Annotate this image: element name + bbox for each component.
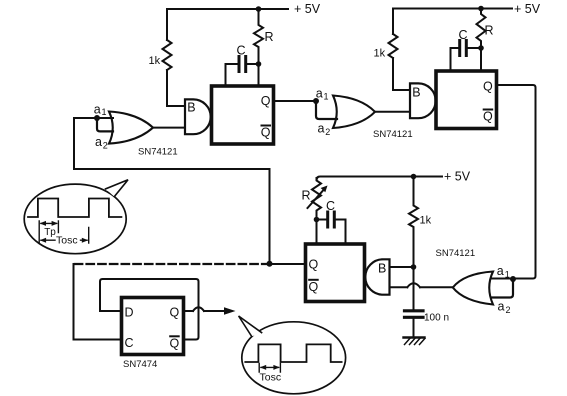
svg-text:B: B [187, 101, 195, 115]
arrow head on Q output [224, 307, 236, 315]
Tosc dimension arrow [40, 238, 88, 243]
capacitor C (first monostable) [226, 57, 259, 72]
Tosc dimension arrow balloon 2 [260, 365, 280, 370]
monostable U1 SN74121 box [212, 86, 274, 144]
dashed clock wire U3 Q to SN7474 [74, 263, 270, 265]
node a1 junction U3 trigger [510, 276, 516, 282]
capacitor C (second monostable) [451, 41, 482, 56]
Q-bar pin label U1 [261, 126, 271, 140]
svg-text:2: 2 [506, 305, 511, 315]
R value label [265, 30, 274, 44]
ground [404, 338, 426, 345]
capacitor C (third monostable) [317, 212, 346, 227]
gate B U3 (mirrored) [365, 259, 389, 294]
B pin label U3 [378, 262, 386, 276]
a2 label U2 [318, 122, 331, 138]
D pin label U4 [125, 306, 134, 320]
svg-text:Q: Q [309, 280, 319, 294]
SN74121 label U2 [373, 129, 413, 140]
100n value label [424, 313, 449, 324]
capacitor 100n [405, 267, 424, 338]
C value label 2 [459, 28, 468, 42]
svg-text:SN74121: SN74121 [138, 147, 178, 158]
+5V label (top-left) [294, 2, 321, 16]
svg-text:C: C [237, 44, 246, 58]
Q pin label U1 [261, 94, 271, 108]
+5V label (top-right) [514, 2, 541, 16]
gate B U1 [185, 99, 211, 134]
svg-text:Q: Q [309, 258, 319, 272]
gate B U2 [410, 83, 436, 118]
wire Q-bar to D feedback loop of flip-flop [100, 279, 199, 340]
Tosc label balloon 1 [56, 234, 78, 246]
node +5V junction U3 [411, 174, 417, 180]
B pin label U1 [187, 101, 195, 115]
variable resistor R (third monostable) [312, 178, 321, 243]
svg-text:a: a [498, 300, 505, 314]
R value label 2 [485, 24, 494, 38]
svg-text:Q: Q [170, 306, 180, 320]
a2 label [95, 135, 108, 151]
wire U2 Q output down right side to OR4 a1 [492, 85, 536, 279]
Q-bar pin label U2 [483, 110, 493, 124]
Q-bar pin label U4 [170, 336, 180, 350]
a2 label U3 trigger [498, 300, 511, 316]
arrow of variable resistor [308, 186, 328, 209]
wire U3 Q output to feedback node [270, 263, 306, 265]
wire C to U1 top pin [225, 64, 227, 85]
Q-bar pin label U3 [309, 280, 319, 294]
wire a1-a2 tie [97, 118, 113, 131]
a1 label U2 [316, 87, 329, 102]
svg-text:SN74121: SN74121 [373, 129, 413, 140]
node a1 junction U2 [313, 98, 319, 104]
svg-text:SN7474: SN7474 [123, 359, 157, 370]
svg-text:B: B [412, 86, 420, 100]
svg-text:Tosc: Tosc [260, 372, 282, 384]
svg-text:1k: 1k [374, 48, 386, 60]
svg-text:+ 5V: + 5V [294, 2, 321, 16]
waveform trace balloon 1 [28, 199, 121, 218]
wire OR2 output to B gate U2 [375, 111, 410, 113]
svg-text:C: C [125, 336, 134, 350]
svg-text:Q: Q [483, 110, 493, 124]
svg-text:a: a [318, 122, 325, 136]
resistor 1k (second monostable) [389, 34, 398, 58]
svg-text:1k: 1k [420, 215, 432, 227]
svg-text:a: a [497, 264, 504, 278]
flip-flop U4 SN7474 box [122, 298, 184, 355]
wire +5V rail top-left [167, 9, 288, 40]
wire C to U3 top pin [345, 220, 347, 244]
a1 label U3 trigger [497, 264, 510, 280]
node a1 junction [94, 115, 100, 121]
node B/1k junction U3 [411, 264, 417, 270]
node RC junction U3 [314, 217, 320, 223]
svg-text:1: 1 [324, 92, 329, 102]
1k value label [149, 55, 161, 67]
node +5V junction U1 [256, 6, 262, 12]
svg-text:a: a [316, 87, 323, 101]
svg-text:Q: Q [483, 80, 493, 94]
wire U1 Q output to a1 of U2 trigger [274, 100, 316, 102]
waveform trace balloon 2 [245, 344, 341, 362]
wire a1-a2 tie U3 trigger [492, 279, 513, 298]
wire C to U2 top pin [450, 48, 452, 70]
svg-text:R: R [265, 30, 274, 44]
svg-text:+ 5V: + 5V [444, 170, 471, 184]
svg-text:100 n: 100 n [424, 313, 449, 324]
svg-text:C: C [326, 199, 335, 213]
Tosc label balloon 2 [260, 372, 282, 384]
callout balloon 1 (Tp/Tosc waveform) [24, 184, 126, 254]
monostable U3 SN74121 box [306, 244, 365, 302]
node +5V junction U2 [478, 6, 484, 12]
callout balloon 2 (Tosc waveform) [242, 322, 346, 394]
svg-text:R: R [485, 24, 494, 38]
node RC junction U2 [478, 45, 484, 51]
svg-text:Q: Q [170, 336, 180, 350]
resistor 1k (third monostable) [409, 177, 418, 268]
svg-text:Q: Q [261, 126, 271, 140]
SN74121 label U3 [436, 248, 476, 259]
node RC junction U1 [256, 61, 262, 67]
wire B input U3 from 1k node [390, 266, 414, 268]
wire clock down to C input of flip-flop [74, 264, 121, 340]
balloon 1 tail [106, 180, 129, 197]
C pin label U4 [125, 336, 134, 350]
R value label 3 [302, 189, 311, 203]
Tp label [44, 227, 56, 238]
Tp dimension ticks [39, 221, 88, 243]
svg-text:1: 1 [102, 107, 107, 117]
wire a1-a2 tie U2 [316, 101, 337, 119]
svg-text:Tosc: Tosc [56, 234, 78, 246]
OR gate U1 trigger (a1/a2) [109, 112, 153, 144]
OR gate U3 trigger (a1/a2, mirrored) [453, 272, 493, 305]
a1 label [94, 102, 107, 117]
Tosc dimension ticks balloon 2 [259, 364, 280, 373]
svg-text:C: C [459, 28, 468, 42]
resistor 1k (first monostable) [163, 40, 172, 70]
monostable U2 SN74121 box [436, 71, 497, 129]
wire +5V rail top-right [393, 9, 512, 35]
resistor R (first monostable) [254, 9, 263, 64]
1k value label 2 [374, 48, 386, 60]
wire RC node to U2 top pin [480, 48, 482, 70]
svg-text:Q: Q [261, 94, 271, 108]
+5V label (middle) [444, 170, 471, 184]
node feedback junction [267, 261, 273, 267]
svg-text:1: 1 [505, 269, 510, 279]
wire OR1 output to B gate U1 [153, 127, 185, 129]
svg-text:a: a [95, 135, 102, 149]
wire a1 input [74, 117, 113, 119]
wire 1k to B input U2 [393, 58, 410, 90]
svg-text:2: 2 [103, 141, 108, 151]
OR gate U2 trigger (a1/a2) [333, 96, 375, 129]
Tp dimension arrow [40, 221, 58, 226]
SN7474 label U4 [123, 359, 157, 370]
svg-text:+ 5V: + 5V [514, 2, 541, 16]
Q pin label U3 [309, 258, 319, 272]
svg-text:Tp: Tp [44, 227, 56, 238]
C value label 3 [326, 199, 335, 213]
resistor R (second monostable) [477, 9, 486, 49]
balloon 2 tail [239, 316, 262, 337]
1k value label 3 [420, 215, 432, 227]
svg-text:1k: 1k [149, 55, 161, 67]
svg-text:R: R [302, 189, 311, 203]
wire +5V rail middle [317, 177, 443, 181]
svg-text:2: 2 [325, 127, 330, 137]
svg-text:SN74121: SN74121 [436, 248, 476, 259]
SN74121 label U1 [138, 147, 178, 158]
Q pin label U2 [483, 80, 493, 94]
wire feedback U3 Q to OR1 (long loop) [74, 118, 270, 264]
wire U4 Q output with crossover hop [185, 307, 228, 311]
wire OR4 output to B gate U3 with crossover hop [390, 283, 453, 287]
Q pin label U4 [170, 306, 180, 320]
wire RC node to U1 top pin [258, 64, 260, 85]
svg-text:B: B [378, 262, 386, 276]
wire 1k to B input U1 [167, 70, 185, 106]
svg-text:D: D [125, 306, 134, 320]
B pin label U2 [412, 86, 420, 100]
svg-text:a: a [94, 102, 101, 116]
C value label [237, 44, 246, 58]
